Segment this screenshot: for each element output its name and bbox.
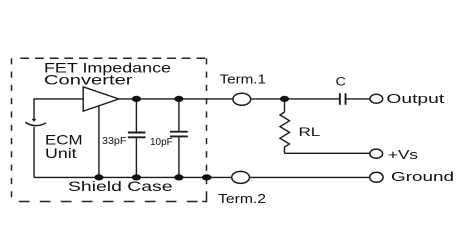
electret capsule curved plate	[25, 122, 46, 125]
+Vs terminal circle	[370, 149, 383, 158]
electret capsule arrowhead	[32, 119, 37, 122]
junction: bottom rail at shield case edge	[202, 174, 212, 180]
svg-text:+Vs: +Vs	[388, 148, 418, 162]
svg-text:C: C	[336, 76, 346, 88]
capacitor C	[339, 93, 370, 105]
svg-text:RL: RL	[299, 125, 321, 139]
label: ECM Unit	[45, 131, 83, 161]
wire: bottom rail (shield/ground)	[34, 176, 370, 178]
wire: RL bottom to +Vs terminal	[285, 152, 370, 154]
resistor RL	[280, 102, 290, 154]
shield case dashed enclosure	[12, 58, 207, 201]
svg-text:Ground: Ground	[391, 170, 454, 184]
junction: bottom rail at 33pF	[132, 174, 141, 180]
svg-text:10pF: 10pF	[150, 137, 173, 148]
terminal Term.2	[232, 171, 250, 183]
svg-text:Output: Output	[386, 92, 445, 106]
op-amp triangle (FET impedance converter)	[83, 87, 119, 111]
capacitor 33pF	[128, 99, 146, 177]
junction: bottom rail at 10pF	[174, 174, 183, 180]
svg-text:Term.1: Term.1	[220, 73, 267, 87]
junction: top rail at 10pF	[174, 96, 183, 102]
junction: bottom rail at triangle wire	[94, 174, 103, 180]
terminal Term.1	[233, 93, 251, 105]
output terminal circle	[370, 94, 383, 103]
svg-text:33pF: 33pF	[102, 136, 126, 147]
svg-text:Converter: Converter	[44, 72, 133, 88]
label: FET Impedance Converter	[44, 60, 171, 88]
wire: top rail from triangle apex to capacitor C	[119, 98, 339, 100]
capacitor 10pF	[170, 99, 188, 177]
svg-text:Term.2: Term.2	[218, 192, 266, 206]
wire: triangle input from capsule	[34, 99, 83, 119]
ground terminal circle	[370, 172, 383, 182]
wire: triangle bottom to bottom rail	[98, 106, 100, 178]
junction: top rail at RL	[280, 96, 289, 102]
svg-text:Shield Case: Shield Case	[68, 178, 173, 194]
svg-text:Unit: Unit	[45, 145, 77, 161]
wire: capsule down to bottom rail	[33, 127, 35, 178]
junction: top rail at 33pF	[132, 96, 141, 102]
